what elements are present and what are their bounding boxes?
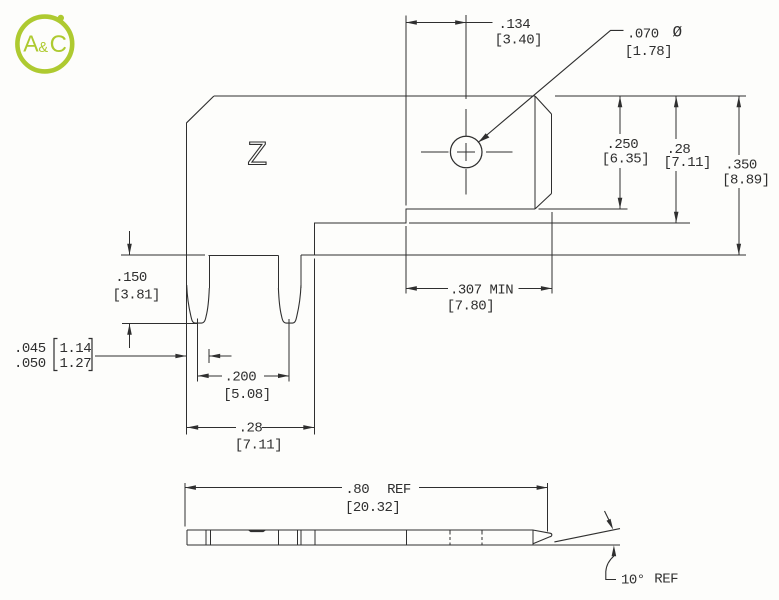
svg-text:1.14: 1.14 bbox=[60, 341, 92, 357]
svg-text:A: A bbox=[23, 30, 39, 56]
svg-text:C: C bbox=[50, 31, 67, 58]
svg-text:[3.81]: [3.81] bbox=[113, 288, 160, 304]
svg-text:.28: .28 bbox=[239, 421, 263, 437]
svg-text:.050: .050 bbox=[14, 356, 46, 372]
svg-text:.045: .045 bbox=[14, 341, 46, 357]
svg-text:.150: .150 bbox=[115, 270, 147, 286]
svg-text:REF: REF bbox=[387, 482, 411, 498]
svg-text:Ø: Ø bbox=[673, 24, 683, 42]
svg-text:[7.11]: [7.11] bbox=[664, 155, 711, 171]
svg-text:[3.40]: [3.40] bbox=[495, 33, 542, 49]
svg-text:Z: Z bbox=[248, 136, 268, 172]
svg-text:[7.80]: [7.80] bbox=[447, 299, 494, 315]
svg-text:1.27: 1.27 bbox=[60, 356, 92, 372]
svg-text:.307 MIN: .307 MIN bbox=[450, 283, 513, 299]
svg-text:[5.08]: [5.08] bbox=[223, 387, 270, 403]
svg-text:[20.32]: [20.32] bbox=[345, 500, 400, 516]
svg-text:[8.89]: [8.89] bbox=[722, 173, 769, 189]
svg-text:.070: .070 bbox=[627, 26, 659, 42]
svg-text:&: & bbox=[38, 40, 48, 56]
svg-text:10°: 10° bbox=[621, 573, 645, 589]
svg-text:[7.11]: [7.11] bbox=[235, 438, 282, 454]
svg-text:.134: .134 bbox=[499, 17, 531, 33]
svg-text:[6.35]: [6.35] bbox=[602, 152, 649, 168]
svg-text:.200: .200 bbox=[225, 370, 257, 386]
svg-text:[1.78]: [1.78] bbox=[625, 44, 672, 60]
svg-text:.350: .350 bbox=[725, 158, 757, 174]
svg-text:.80: .80 bbox=[345, 482, 369, 498]
svg-text:REF: REF bbox=[654, 572, 678, 588]
